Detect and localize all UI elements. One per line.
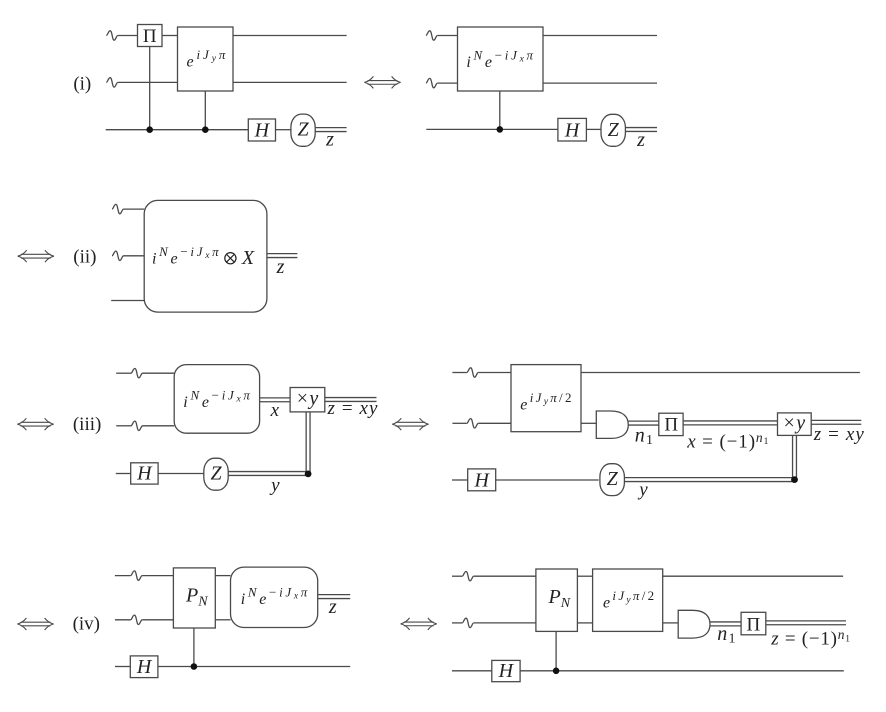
gate H (i-left) [248, 119, 275, 141]
wavy source symbol q2 input (iv-right) [462, 618, 474, 627]
gate P_N (iv-left) [173, 568, 215, 628]
svg-text:Z: Z [297, 119, 309, 141]
wire control line (iv-left) [193, 628, 195, 667]
measurement detector detector n1 (iv-right) [678, 610, 710, 638]
control (iv-right) (control dot) [553, 668, 560, 675]
gate Pi (i-left) [138, 25, 163, 47]
wire q2 lead (iv-right) [452, 622, 462, 624]
wavy source symbol q1 input (iv-left) [131, 571, 142, 580]
gate Pi (iv-right) [741, 612, 766, 635]
svg-text:z: z [636, 129, 645, 151]
wire q2 lead (iv-left) [115, 619, 131, 621]
wire q2 lead (iii-left) [116, 425, 131, 427]
gate H (iv-right) [492, 660, 520, 681]
wavy source symbol q1 input (iii-right) [467, 368, 479, 377]
wire q2 a (i-left) [118, 81, 178, 83]
equivalence arrow (iv) left [17, 618, 53, 630]
svg-text:H: H [136, 656, 153, 678]
wire z output (iv-right) (classical double line) [766, 621, 846, 625]
wire q3 a (ii) [111, 300, 144, 302]
gate H (i-right) [558, 118, 587, 141]
wire q3 a (i-left) [106, 129, 249, 131]
svg-text:(i): (i) [73, 73, 91, 94]
wire q1 lead (iii-right) [452, 372, 466, 374]
wire q2 a (i-right) [437, 82, 457, 84]
wire q1 a (iii-right) [478, 372, 511, 374]
equivalence arrow (iii) left [17, 418, 53, 430]
svg-text:H: H [473, 469, 490, 491]
svg-text:z = xy: z = xy [327, 398, 379, 419]
svg-text:z: z [325, 129, 334, 151]
svg-text:x: x [270, 400, 280, 421]
wire q1 a (iv-right) [474, 575, 536, 577]
wire z output (i-right) (classical double line) [625, 128, 657, 132]
wavy source symbol q1 input (iii-left) [131, 369, 142, 378]
wire q1 a (iii-left) [143, 372, 175, 374]
svg-text:x = (−1)n1: x = (−1)n1 [686, 430, 769, 453]
wavy source symbol q2 input (iv-left) [131, 615, 142, 624]
wire q1 b (iv-right) [577, 575, 592, 577]
svg-text:Z: Z [608, 119, 620, 141]
wire q3 a (iii-right) [496, 479, 599, 481]
svg-text:(iv): (iv) [73, 614, 100, 635]
gate times-y (iii-right) [778, 413, 812, 436]
wire q1 a (iv-left) [142, 575, 173, 577]
gate i^N exp(-iJx pi) (iv-left) [231, 567, 318, 627]
svg-text:Π: Π [664, 415, 678, 436]
wire q1 lead (iv-right) [452, 575, 462, 577]
tensor-product symbol otimes (ii) [225, 253, 236, 264]
svg-text:(iii): (iii) [73, 414, 102, 435]
wire control line (i-right) [499, 91, 501, 129]
measurement Z (iii-left) [204, 458, 228, 490]
measurement Z (i-right) [601, 114, 625, 146]
wire x output (iii-left) (classical double line) [260, 398, 291, 402]
wire q1 a (ii) [124, 208, 145, 210]
wavy source symbol q1 input (i-right) [426, 31, 438, 40]
wire z output (i-left) (classical double line) [316, 128, 347, 132]
gate exp(iJy pi) (i-left) [178, 27, 234, 91]
wire control line from eJy gate (i-left) [204, 91, 206, 130]
wavy source symbol q2 input (iii-right) [467, 419, 479, 428]
measurement Z (i-left) [291, 114, 315, 146]
wire z output (iii-right) (classical double line) [811, 420, 861, 424]
wire q2 lead (iii-right) [452, 422, 466, 424]
svg-text:H: H [136, 463, 153, 485]
svg-text:y: y [269, 475, 280, 496]
junction (iii-left) (control dot) [305, 471, 312, 478]
wire z output (iv-left) (classical double line) [318, 595, 351, 599]
wire q2 a (iii-right) [478, 422, 511, 424]
wavy source symbol q2 input (i-left) [106, 78, 118, 87]
wire q2 a (iii-left) [143, 425, 175, 427]
svg-text:Z: Z [210, 463, 222, 485]
wire q2 a (iv-left) [142, 619, 173, 621]
wire q2 a (iv-right) [474, 622, 536, 624]
control (i-right) (control dot) [497, 126, 504, 133]
wire q3 lead (iv-right) [452, 670, 492, 672]
wavy source symbol q2 input (i-right) [426, 78, 438, 87]
svg-text:H: H [254, 120, 271, 142]
wavy source symbol q2 input (ii) [112, 251, 124, 260]
wire q1 a (i-right) [437, 35, 457, 37]
control (iv-left) (control dot) [191, 663, 198, 670]
svg-text:X: X [241, 247, 255, 269]
gate P_N (iv-right) [536, 569, 578, 631]
svg-text:n1: n1 [635, 425, 654, 448]
wire control line (iv-right) [555, 631, 557, 670]
gate Pi (iii-right) [659, 413, 683, 435]
gate exp(iJy pi/2) (iii-right) [511, 365, 581, 432]
wire q3 a (iv-right) [520, 670, 844, 672]
control 2 (i-left) (control dot) [202, 126, 209, 133]
equivalence arrow (ii) left [18, 250, 54, 262]
wire q2 b (iii-right) [581, 422, 596, 424]
equivalence arrow (iv) middle [401, 618, 437, 630]
wire control line from Pi gate (i-left) [149, 47, 151, 130]
svg-text:H: H [498, 660, 515, 682]
svg-text:y: y [637, 480, 648, 501]
wire n1 line (iii-right) (classical double line) [628, 421, 659, 425]
wavy source symbol q1 input (ii) [112, 204, 124, 213]
svg-text:z: z [276, 256, 285, 278]
svg-text:Z: Z [607, 468, 619, 490]
wire q3 lead (iv-left) [115, 666, 130, 668]
wavy source symbol q1 input (i-left) [106, 31, 118, 40]
wire y line (iii-left) (classical double line) [228, 472, 310, 476]
wire q1 b (i-right) [543, 35, 657, 37]
wire q1 bridge (iv-left) [215, 575, 230, 577]
wavy source symbol q2 input (iii-left) [131, 421, 142, 430]
wire z output (ii) (classical double line) [267, 254, 298, 258]
wire y riser (iii-right) (vertical classical double line) [793, 435, 797, 481]
gate H (iii-right) [468, 469, 496, 491]
wire q3 b (i-right) [586, 128, 601, 130]
wire q2 b (i-right) [543, 82, 657, 84]
measurement detector detector n1 (iii-right) [596, 411, 628, 438]
wire q1 c (iv-right) [663, 575, 843, 577]
svg-text:×y: ×y [784, 412, 807, 434]
wire q2 c (iv-right) [663, 622, 678, 624]
wire q2 a (ii) [124, 255, 145, 257]
wire x line (iii-right) (classical double line) [683, 421, 777, 425]
wire q3 b (i-left) [276, 129, 291, 131]
wire y line (iii-right) (classical double line) [624, 478, 796, 482]
wire z output (iii-left) (classical double line) [325, 398, 377, 402]
gate H (iv-left) [130, 656, 158, 678]
svg-text:z = xy: z = xy [813, 424, 865, 445]
measurement Z (iii-right) [600, 464, 625, 496]
wire q1 b (iii-right) [581, 372, 860, 374]
wire q3 lead (iii-right) [452, 479, 468, 481]
wire q1 a (i-left) [118, 35, 138, 37]
wire q3 a (iv-left) [158, 666, 350, 668]
wire q3 a (i-right) [426, 128, 558, 130]
svg-text:(ii): (ii) [73, 246, 96, 267]
wire q1 lead (iv-left) [115, 575, 131, 577]
gate times-y (iii-left) [290, 388, 325, 412]
control 1 (i-left) (control dot) [146, 126, 153, 133]
svg-text:Π: Π [747, 614, 761, 635]
svg-text:×y: ×y [297, 388, 320, 410]
wire y riser (iii-left) (vertical classical double line) [306, 412, 310, 476]
gate i^N exp(-iJx pi) (i-right) [458, 27, 544, 91]
svg-text:Π: Π [143, 26, 157, 47]
wire q2 b (i-left) [233, 81, 347, 83]
wire q2 bridge (iv-left) [215, 619, 230, 621]
gate i^N exp(-iJx pi) tensor X (ii) [144, 200, 267, 312]
equivalence arrow (i) left-right [364, 76, 400, 88]
wavy source symbol q1 input (iv-right) [462, 572, 474, 581]
svg-text:H: H [564, 120, 581, 142]
svg-text:z: z [328, 596, 337, 618]
wire n1 line (iv-right) (classical double line) [710, 622, 741, 626]
wire q1 c (i-left) [233, 35, 347, 37]
wire q1 lead (iii-left) [116, 372, 131, 374]
svg-text:z = (−1)n1: z = (−1)n1 [770, 627, 851, 650]
wire q3 lead (iii-left) [116, 473, 131, 475]
junction (iii-right) (control dot) [791, 476, 798, 483]
wire q3 a (iii-left) [158, 473, 204, 475]
wire q2 b (iv-right) [577, 622, 592, 624]
gate i^N exp(-iJx pi) (iii-left) [174, 365, 259, 434]
gate H (iii-left) [131, 463, 158, 484]
wire q1 b (i-left) [162, 35, 178, 37]
gate exp(iJy pi/2) (iv-right) [593, 569, 663, 631]
equivalence arrow (iii) middle [392, 418, 428, 430]
